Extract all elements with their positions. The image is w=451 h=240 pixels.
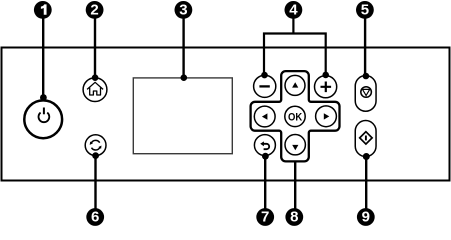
callout 6 (86, 208, 104, 226)
power icon (39, 113, 50, 123)
node dot 3 (181, 74, 188, 81)
wire callout line 3 (182, 12, 184, 78)
down arrow button P8 (285, 135, 305, 155)
minus button (254, 75, 276, 97)
LCD screen P3 (133, 78, 232, 154)
node dot 2 (92, 74, 99, 81)
reset icon arrowheads (90, 142, 93, 145)
reset icon arcs (91, 140, 99, 143)
right arrow icon (324, 113, 330, 119)
node dot 5 (363, 73, 370, 80)
wire callout line 9 (365, 157, 367, 215)
left arrow button (254, 106, 275, 127)
node dot 7 (262, 153, 269, 160)
control panel outline (2, 48, 450, 181)
wire callout line 2 (94, 12, 96, 78)
svg-text:9: 9 (362, 208, 370, 225)
callout 3 (175, 1, 193, 19)
stop button P5 (355, 76, 376, 112)
node dot 6 (92, 152, 99, 159)
callout 2 (86, 1, 104, 19)
minus icon (259, 85, 269, 87)
svg-text:3: 3 (179, 2, 187, 19)
node dot 4b (322, 72, 329, 79)
start button P9 (355, 121, 376, 157)
wire callout line 5 (364, 12, 366, 76)
back button P7 (254, 135, 275, 156)
left arrow icon (262, 113, 268, 119)
up arrow icon (292, 82, 298, 87)
callout 4 (285, 1, 303, 19)
node dot 4a (261, 72, 268, 79)
svg-text:OK: OK (288, 111, 302, 123)
power button P1 (24, 100, 62, 138)
svg-text:6: 6 (91, 208, 99, 225)
svg-text:4: 4 (289, 2, 298, 19)
plus button (315, 76, 337, 98)
right arrow button (316, 106, 337, 127)
callout 1 (34, 1, 52, 19)
node dot 1 (40, 94, 47, 101)
callout 5 (356, 1, 374, 19)
home button P2 (83, 78, 107, 102)
wire callout line 8 (294, 160, 296, 214)
wire callout line 7 (264, 156, 266, 214)
callout 7 (256, 208, 274, 226)
svg-text:2: 2 (90, 2, 98, 19)
down arrow icon (292, 145, 298, 150)
start icon (360, 132, 372, 144)
svg-text:7: 7 (261, 208, 269, 225)
wire callout bracket 4 (264, 12, 326, 75)
stop icon (361, 87, 372, 98)
back icon (264, 144, 270, 149)
wire callout line 6 (94, 156, 96, 215)
svg-text:5: 5 (361, 2, 369, 19)
node dot 9 (363, 153, 370, 160)
plus icon (321, 82, 332, 93)
wire callout line 1 (42, 12, 44, 98)
svg-text:8: 8 (290, 208, 298, 225)
home icon (87, 82, 103, 95)
reset button P6 (85, 135, 106, 156)
callout 8 (285, 208, 303, 226)
up arrow button (285, 75, 305, 95)
d-pad cross outline (251, 71, 340, 161)
callout 9 (357, 208, 375, 226)
OK button (285, 106, 305, 126)
